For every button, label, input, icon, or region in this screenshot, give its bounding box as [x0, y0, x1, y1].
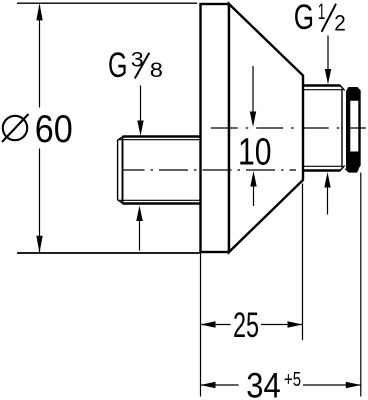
dimension line 34+5 — [201, 384, 239, 386]
left thread chamfer edges — [118, 137, 123, 141]
arrow right 34+5 — [346, 382, 361, 388]
opposing arrow G1/2 (up to thread bottom) — [327, 186, 329, 215]
cone body — [229, 4, 303, 252]
leader arrow G1/2 (down to thread top) — [327, 36, 329, 71]
svg-text:G: G — [294, 0, 314, 37]
svg-text:60: 60 — [35, 108, 73, 151]
dimension line D60 (vertical, broken for label) — [39, 5, 41, 108]
seal ring bottom lip — [344, 169, 359, 173]
opposing arrow G3/8 (up to thread bottom) — [139, 219, 141, 251]
dimension line 25 — [201, 324, 231, 326]
right thread chamfer edges — [340, 86, 344, 91]
flange (wall rosette, front plate) — [201, 4, 230, 252]
left thread chamfer boundary line — [122, 137, 124, 204]
svg-text:2: 2 — [334, 10, 346, 35]
svg-text:1: 1 — [318, 0, 326, 24]
left thread G3/8: major diameter lines — [123, 135, 201, 137]
leader arrow G3/8 (down to thread top) — [140, 86, 142, 124]
left thread end face — [117, 140, 119, 201]
arrow down D60 — [36, 236, 42, 253]
centerline G3/8 axis — [123, 169, 296, 171]
diameter symbol — [3, 116, 27, 140]
right thread G1/2: minor (core) diameter lines — [303, 89, 342, 91]
extension line bottom (flange bottom, for D60) — [17, 252, 200, 254]
right thread end face — [341, 89, 343, 168]
dimension 10 lower arrow (up to G3/8 axis) — [253, 185, 255, 207]
arrow left 34+5 — [201, 382, 216, 388]
svg-text:10: 10 — [238, 132, 272, 174]
svg-text:34: 34 — [246, 366, 280, 400]
centerline G1/2 axis — [204, 127, 366, 129]
extension line right for 25 (cone face) — [302, 184, 304, 341]
left thread G3/8: minor (core) diameter lines — [118, 139, 200, 141]
arrow left 25 — [201, 321, 216, 327]
svg-text:G: G — [108, 46, 128, 85]
right thread G1/2: major diameter lines — [303, 84, 341, 86]
extension line right for 34+5 (part end) — [360, 173, 362, 397]
extension line left (wall face, for 25 and 34+5) — [200, 253, 202, 397]
arrow up D60 — [36, 3, 42, 20]
svg-text:+5: +5 — [284, 369, 301, 391]
extension line top (flange top, for D60) — [17, 2, 197, 4]
svg-text:25: 25 — [233, 306, 259, 345]
seal ring (black section) with end-face window — [346, 87, 361, 169]
svg-text:8: 8 — [150, 58, 163, 82]
arrow right 25 — [288, 321, 303, 327]
dimension 10 upper arrow (down to G1/2 axis) — [252, 66, 254, 113]
